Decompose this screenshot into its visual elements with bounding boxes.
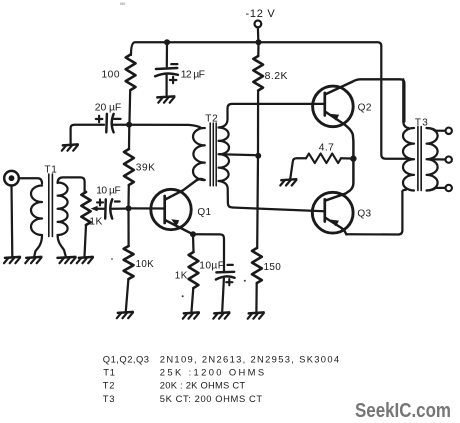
svg-text:5K CT: 200 OHMS CT: 5K CT: 200 OHMS CT bbox=[160, 393, 263, 404]
svg-text:100: 100 bbox=[102, 70, 121, 81]
svg-text:25K :1200 OHMS: 25K :1200 OHMS bbox=[160, 366, 265, 377]
svg-text:20 µF: 20 µF bbox=[95, 102, 122, 113]
svg-text:SeekIC.com: SeekIC.com bbox=[355, 399, 451, 422]
svg-text:Q2: Q2 bbox=[358, 102, 372, 113]
svg-text:10µF: 10µF bbox=[199, 260, 224, 271]
svg-text:20K : 2K OHMS CT: 20K : 2K OHMS CT bbox=[160, 379, 246, 390]
svg-text:4.7: 4.7 bbox=[319, 142, 335, 153]
svg-text:T2: T2 bbox=[103, 379, 115, 390]
svg-text:1K: 1K bbox=[89, 216, 102, 227]
svg-text:39K: 39K bbox=[136, 162, 156, 173]
svg-text:10 µF: 10 µF bbox=[96, 185, 121, 196]
svg-text:T3: T3 bbox=[415, 117, 429, 128]
svg-text:12 µF: 12 µF bbox=[181, 69, 206, 80]
svg-text:2N109, 2N2613, 2N2953, SK30: 2N109, 2N2613, 2N2953, SK3004 bbox=[160, 353, 340, 364]
svg-text:-12 V: -12 V bbox=[246, 8, 276, 20]
svg-text:10K: 10K bbox=[136, 259, 154, 270]
svg-text:T3: T3 bbox=[103, 393, 115, 404]
svg-text:Q3: Q3 bbox=[357, 208, 371, 219]
svg-text:150: 150 bbox=[264, 262, 282, 273]
svg-text:Q1,Q2,Q3: Q1,Q2,Q3 bbox=[103, 353, 150, 364]
svg-text:1K: 1K bbox=[175, 270, 188, 281]
svg-text:8.2K: 8.2K bbox=[265, 71, 288, 82]
svg-text:T1: T1 bbox=[44, 164, 57, 175]
svg-text:T1: T1 bbox=[103, 366, 115, 377]
svg-text:Q1: Q1 bbox=[197, 207, 211, 218]
